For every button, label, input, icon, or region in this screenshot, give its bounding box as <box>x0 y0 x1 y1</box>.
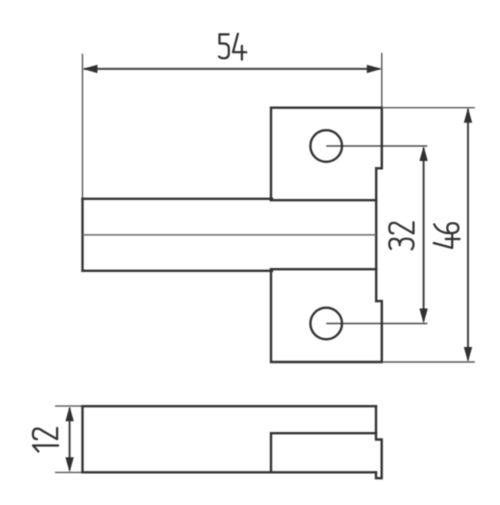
dim line 54 <box>84 68 380 70</box>
dimension text 54 <box>219 34 246 60</box>
arm middle seam line <box>83 234 377 236</box>
side view top edge <box>83 405 377 407</box>
top block outline <box>271 108 382 201</box>
arrow 46 up <box>464 108 472 123</box>
side view left edge <box>81 406 83 472</box>
arrow 54 left <box>83 65 98 73</box>
arrow 32 up <box>419 146 427 161</box>
side view right stepped profile <box>376 406 382 478</box>
digit 4 of 46 <box>434 235 460 248</box>
notch vertical edge <box>375 168 377 301</box>
top view outline <box>83 108 382 362</box>
digit 1 of 12 <box>33 446 58 452</box>
centre line of top hole <box>326 145 427 147</box>
extension line left of dim 54 <box>82 54 84 198</box>
extension line bottom of dim 12 <box>55 471 84 473</box>
digit 5 of 54 <box>219 34 229 58</box>
extension line top of dim 46 <box>383 107 475 109</box>
dim line 46 <box>467 109 469 360</box>
dim line 12 <box>69 408 71 470</box>
leaf cutout bottom seam <box>271 268 376 270</box>
arrowheads <box>65 65 472 473</box>
arrow 12 up <box>65 406 73 421</box>
dimension text 46 (rotated) <box>434 223 460 248</box>
arrow 32 down <box>419 309 427 324</box>
side view outline <box>83 406 382 478</box>
extension line top of dim 12 <box>55 405 84 407</box>
dim line 32 <box>423 148 425 321</box>
top hole <box>310 130 342 162</box>
dimension text 32 (rotated) <box>389 222 413 249</box>
extension line right of dim 54 <box>381 53 383 108</box>
side view bottom edge <box>83 471 376 473</box>
leaf cutout top seam <box>271 199 376 201</box>
arrow 46 down <box>464 347 472 362</box>
digit 6 of 46 <box>434 223 458 233</box>
digit 2 of 32 <box>389 222 413 233</box>
side view inner step <box>271 433 376 472</box>
arrow 54 right <box>367 65 382 73</box>
arm top edge <box>83 198 273 200</box>
extension line bottom of dim 46 <box>383 361 475 363</box>
thin extension and centre lines <box>55 53 475 473</box>
digit 3 of 32 <box>389 239 413 250</box>
digit 4 of 54 <box>233 34 246 60</box>
centre line of bottom hole <box>326 323 427 325</box>
arrow 12 down <box>65 457 73 472</box>
bottom hole <box>310 308 342 340</box>
dimension text 12 (rotated) <box>33 428 58 452</box>
arm bottom edge <box>83 270 273 272</box>
dimension lines <box>70 69 468 470</box>
digit 2 of 12 <box>33 428 57 439</box>
bottom block outline <box>271 269 382 362</box>
arm left edge <box>81 199 83 271</box>
